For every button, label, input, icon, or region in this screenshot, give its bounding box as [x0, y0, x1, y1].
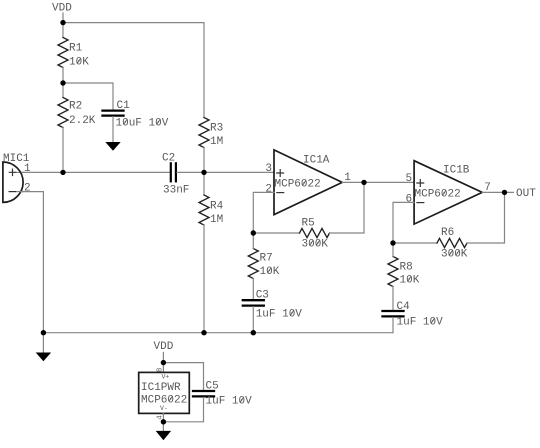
svg-text:5: 5	[406, 173, 413, 185]
resistor R5	[300, 228, 330, 237]
resistor R1	[58, 38, 68, 68]
svg-text:V-: V-	[160, 405, 168, 412]
resistor R4	[199, 195, 209, 225]
svg-text:OUT: OUT	[516, 188, 536, 200]
plus sign (pin 5)	[417, 180, 424, 187]
wire IC1PWR bottom pin	[162, 413, 164, 430]
wire node to C1	[63, 83, 113, 110]
slashed-zero strokes (schematic font zeros)	[77, 58, 459, 402]
wire node to R5	[253, 232, 299, 234]
svg-text:R7: R7	[260, 253, 273, 265]
resistor R8	[388, 257, 398, 287]
junction rail at MIC1 pin2	[41, 330, 46, 335]
minus sign (pin 6)	[417, 202, 424, 204]
svg-text:IC1A: IC1A	[303, 155, 330, 167]
wire node to R6	[393, 242, 437, 244]
wire MIC1 pin1 to C2 (main input net)	[22, 171, 170, 173]
svg-text:3: 3	[265, 163, 272, 175]
svg-text:1M: 1M	[210, 136, 223, 148]
resistor R7	[248, 249, 258, 279]
svg-text:300K: 300K	[302, 239, 329, 251]
junction rail at R4	[201, 330, 206, 335]
svg-text:2.2K: 2.2K	[69, 115, 96, 127]
wire R1 to R2	[62, 68, 64, 98]
svg-text:VDD: VDD	[154, 341, 174, 353]
svg-text:R1: R1	[69, 43, 83, 55]
wire IC1B output to OUT	[482, 191, 513, 193]
svg-text:R4: R4	[210, 201, 224, 213]
svg-text:1M: 1M	[210, 214, 223, 226]
pin 2 stub	[16, 191, 24, 193]
svg-text:6: 6	[406, 194, 413, 206]
svg-text:C3: C3	[256, 289, 269, 301]
svg-text:2: 2	[265, 184, 272, 196]
wire MIC1 pin2 down to ground rail	[21, 192, 44, 333]
wire node to R8	[392, 243, 394, 257]
capacitor C1	[103, 111, 124, 116]
ground (below C1)	[105, 142, 120, 151]
svg-text:MCP6022: MCP6022	[415, 189, 461, 201]
wire C3 to ground rail	[252, 307, 254, 333]
wire R7 to C3	[252, 279, 254, 300]
minus sign (pin 2)	[277, 192, 284, 194]
svg-text:10K: 10K	[69, 57, 89, 69]
svg-text:R2: R2	[69, 101, 82, 113]
wire rail stub below MIC1	[42, 333, 44, 353]
wire C5 bottom to ground node	[163, 397, 203, 421]
capacitor C3	[243, 300, 264, 305]
junction rail at C3	[251, 330, 256, 335]
wire VDD to IC1PWR	[162, 353, 164, 373]
svg-text:33nF: 33nF	[163, 184, 189, 196]
wire C2 to IC1A pin 3	[177, 171, 274, 173]
svg-text:300K: 300K	[441, 249, 468, 261]
mic body outline	[3, 162, 23, 202]
wire R8 to C4	[392, 287, 394, 311]
wire node to R7	[252, 233, 254, 249]
svg-text:C2: C2	[162, 153, 175, 165]
wire IC1A output to IC1B pin5	[342, 181, 414, 183]
svg-text:R5: R5	[302, 218, 315, 230]
wire R6 to output node	[467, 192, 505, 243]
resistor R3	[199, 118, 209, 148]
wire IC1A pin2 feedback loop	[253, 192, 274, 233]
svg-text:10K: 10K	[400, 275, 420, 287]
resistor R6	[437, 238, 467, 247]
svg-text:1uF 10V: 1uF 10V	[397, 316, 444, 328]
wire C4 to ground rail corner	[392, 317, 394, 332]
box body	[139, 372, 190, 413]
wire node to R4	[203, 172, 205, 195]
op-amp IC1A	[265, 150, 351, 215]
triangle body	[274, 150, 342, 215]
svg-text:10uF 10V: 10uF 10V	[116, 118, 169, 130]
ground (below IC1PWR)	[156, 431, 171, 440]
wire R2 to input node	[62, 128, 64, 173]
svg-text:8: 8	[156, 368, 164, 373]
ground (left, below rail)	[36, 353, 51, 362]
wire VDD stem	[62, 13, 64, 38]
junction feedback node IC1A	[251, 230, 256, 235]
wire R3 to node	[203, 148, 205, 173]
svg-text:IC1PWR: IC1PWR	[141, 382, 181, 394]
op-amp IC1B	[406, 161, 491, 224]
wire VDD top rail to R3	[63, 23, 204, 118]
junction VDD node	[60, 20, 65, 25]
IC1PWR power block U1	[139, 368, 190, 420]
svg-text:V+: V+	[162, 373, 170, 380]
microphone MIC1	[3, 153, 31, 202]
wire R5 to IC1A output	[330, 182, 365, 233]
minus sign (pin 2)	[9, 191, 15, 193]
junction R3/R4 bias node	[201, 170, 206, 175]
svg-text:C4: C4	[397, 301, 411, 313]
svg-text:VDD: VDD	[52, 3, 72, 15]
plus sign (pin 3)	[277, 170, 284, 177]
svg-text:C1: C1	[117, 100, 131, 112]
junction input node at R2	[60, 170, 65, 175]
svg-text:10K: 10K	[260, 266, 280, 278]
junction IC1A output node	[361, 180, 366, 185]
resistor R2	[58, 98, 68, 128]
junction ground node below IC1PWR	[161, 419, 166, 424]
junction feedback node IC1B	[390, 240, 395, 245]
triangle body	[414, 161, 482, 224]
wire IC1B pin6 feedback loop	[393, 202, 414, 243]
capacitor C4	[383, 311, 404, 316]
junction R1/R2/C1 node	[60, 80, 65, 85]
junction VDD/C5 node	[161, 360, 166, 365]
capacitor C2	[171, 163, 176, 181]
svg-text:IC1B: IC1B	[443, 165, 470, 177]
svg-text:2: 2	[24, 183, 31, 195]
svg-text:C5: C5	[206, 381, 219, 393]
pin 1 stub	[16, 171, 24, 173]
wire ground rail	[43, 332, 393, 334]
wire R4 to ground rail	[203, 225, 205, 333]
svg-text:R6: R6	[441, 227, 454, 239]
svg-text:R8: R8	[400, 262, 413, 274]
wire VDD node to C5	[163, 363, 203, 390]
junction output node	[502, 190, 507, 195]
svg-text:1uF 10V: 1uF 10V	[206, 396, 253, 408]
svg-text:R3: R3	[210, 123, 223, 135]
svg-text:1uF 10V: 1uF 10V	[256, 309, 303, 321]
capacitor C5	[193, 391, 214, 396]
svg-text:MCP6022: MCP6022	[275, 179, 321, 191]
wire C1 to ground	[112, 117, 114, 142]
plus sign (pin 1)	[9, 169, 15, 175]
